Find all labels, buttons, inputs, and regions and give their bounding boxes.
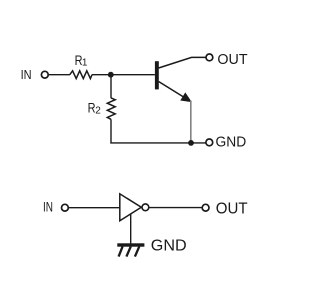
terminal IN (bottom) open circle <box>62 204 69 211</box>
wire IN to R1 <box>49 74 70 76</box>
inverter U1 output bubble <box>142 204 149 211</box>
svg-text:IN: IN <box>43 200 53 215</box>
terminal GND (top) open circle <box>206 139 213 146</box>
resistor R2 <box>107 98 115 119</box>
wire emitter down to ground rail <box>190 101 192 143</box>
svg-text:OUT: OUT <box>217 52 247 68</box>
transistor Q1 base bar <box>155 61 159 89</box>
terminal OUT (bottom) open circle <box>202 204 209 211</box>
ground symbol hatch 1 <box>119 246 123 256</box>
terminal IN (top) open circle <box>41 71 48 78</box>
wire ground rail horizontal <box>110 142 205 144</box>
junction dot at ground rail <box>188 140 194 146</box>
wire R1 to base <box>92 74 155 76</box>
wire inverter down to ground <box>130 214 132 244</box>
transistor Q1 emitter arrowhead <box>181 93 191 101</box>
svg-text:GND: GND <box>151 238 187 255</box>
terminal OUT (top) open circle <box>206 54 213 61</box>
wire R2 down to ground rail <box>110 119 112 143</box>
ground symbol hatch 3 <box>135 246 139 256</box>
ground symbol hatch 2 <box>126 246 130 256</box>
svg-text:GND: GND <box>216 135 247 151</box>
wire IN to inverter <box>69 207 120 209</box>
transistor Q1 collector wire <box>159 57 206 68</box>
inverter U1 triangle <box>120 194 142 221</box>
svg-text:1: 1 <box>82 57 88 68</box>
resistor R1 <box>70 71 92 79</box>
svg-text:OUT: OUT <box>216 200 248 217</box>
wire inverter to OUT <box>149 207 202 209</box>
svg-text:IN: IN <box>21 67 32 82</box>
transistor Q1 emitter wire <box>159 82 186 99</box>
svg-text:2: 2 <box>95 106 101 117</box>
junction node A dot <box>108 72 114 78</box>
wire node A down to R2 <box>110 75 112 99</box>
ground symbol bar <box>117 243 144 246</box>
